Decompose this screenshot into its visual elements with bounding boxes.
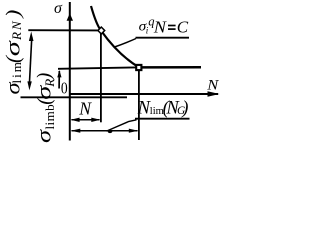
svg-text:σiqNC: σiqNC	[139, 15, 189, 37]
svg-text:N: N	[78, 98, 92, 118]
svg-text:σ: σ	[54, 0, 63, 17]
svg-text:N: N	[206, 77, 219, 93]
svg-text:0: 0	[61, 78, 68, 97]
